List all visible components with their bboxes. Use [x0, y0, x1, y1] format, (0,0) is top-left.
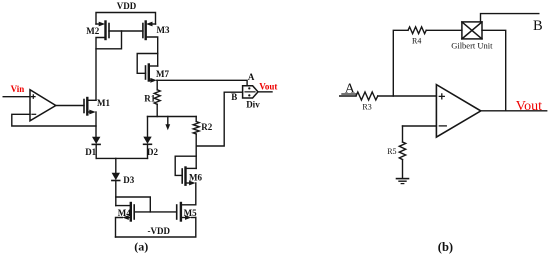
wire Vout output: [481, 110, 547, 112]
wire M6 gate-drain tie: [175, 156, 196, 175]
label VDD: [117, 1, 137, 11]
label D3: [123, 175, 134, 185]
diode D3: [112, 173, 120, 206]
label M5: [184, 208, 197, 218]
node A (a): [248, 72, 255, 82]
svg-text:M6: M6: [189, 172, 202, 182]
label Gilbert Unit: [451, 40, 493, 50]
svg-text:A: A: [345, 81, 356, 96]
node A (b): [345, 81, 356, 96]
svg-text:(a): (a): [134, 240, 148, 254]
svg-text:M2: M2: [86, 26, 99, 36]
wire inverting input lead: [403, 125, 437, 127]
svg-text:M1: M1: [97, 98, 110, 108]
wire node B to divider: [196, 92, 242, 146]
wire bus to diode D3: [115, 158, 117, 172]
op-amp U1: [30, 90, 56, 121]
svg-text:VDD: VDD: [117, 1, 137, 11]
wire R3 to noninverting input: [378, 95, 437, 97]
transistor M7: [146, 65, 158, 83]
transistor M6: [182, 168, 196, 186]
svg-text:B: B: [231, 92, 237, 102]
label R1: [144, 93, 155, 103]
wire node B branch: [481, 14, 539, 22]
label Vout (b): [516, 99, 542, 114]
label Div: [246, 100, 260, 110]
transistor M3: [143, 22, 158, 67]
diode D2: [143, 137, 151, 159]
svg-text:M4: M4: [118, 208, 131, 218]
svg-text:B: B: [533, 18, 543, 34]
wire A input lead: [340, 95, 356, 97]
label Vout (a): [259, 81, 277, 91]
transistor M5: [177, 183, 196, 221]
resistor R1: [154, 80, 160, 116]
current direction arrow: [165, 117, 170, 131]
wire feedback left branch: [393, 30, 408, 96]
svg-text:-VDD: -VDD: [148, 226, 171, 236]
svg-text:R5: R5: [387, 147, 396, 156]
label R3: [362, 102, 371, 111]
VDD rail: [96, 13, 156, 25]
label M7: [156, 69, 169, 79]
ground: [397, 179, 409, 184]
label M1: [97, 98, 110, 108]
wire feedback to inverting input: [12, 114, 96, 126]
caption (b): [438, 240, 453, 254]
label M3: [157, 25, 170, 35]
label -VDD: [148, 226, 171, 236]
label M4: [118, 208, 131, 218]
wire M4 gate to M5 gate: [134, 211, 177, 213]
transistor M1: [84, 98, 96, 137]
wire op-amp output to M1 gate: [56, 105, 84, 107]
wire M2 gate-drain tie: [96, 31, 122, 49]
-VDD rail: [116, 218, 196, 238]
svg-text:D2: D2: [147, 147, 158, 157]
label R2: [201, 122, 212, 132]
svg-text:A: A: [248, 72, 255, 82]
svg-text:R4: R4: [412, 36, 421, 45]
wire M4 gate-drain tie: [116, 197, 151, 212]
svg-text:M5: M5: [184, 208, 197, 218]
svg-text:Div: Div: [246, 100, 260, 110]
resistor R4: [408, 27, 426, 34]
label D1: [85, 147, 96, 157]
svg-text:Vout: Vout: [516, 99, 542, 114]
svg-text:Vout: Vout: [259, 81, 277, 91]
resistor R2: [193, 117, 199, 169]
label Vin: [11, 84, 25, 94]
label D2: [147, 147, 158, 157]
svg-text:R1: R1: [144, 93, 155, 103]
svg-text:D1: D1: [85, 147, 96, 157]
wire M7 gate-drain tie: [137, 54, 158, 74]
wire A input underline: [342, 93, 356, 95]
wire Gilbert unit to output node: [482, 30, 506, 111]
op-amp U2: [436, 85, 480, 138]
wire Vin input: [3, 96, 30, 98]
wire R4 to Gilbert unit: [426, 29, 462, 31]
diode D1: [92, 137, 100, 159]
wire M2 gate to M3 gate: [109, 30, 143, 32]
svg-text:R2: R2: [201, 122, 212, 132]
label M2: [86, 26, 99, 36]
label M6: [189, 172, 202, 182]
caption (a): [134, 240, 148, 254]
node B (a): [231, 92, 237, 102]
label R4: [412, 36, 421, 45]
svg-text:Gilbert Unit: Gilbert Unit: [451, 40, 493, 50]
mixer Gilbert Unit: [462, 22, 482, 39]
resistor R5: [399, 126, 405, 178]
transistor M2: [96, 22, 109, 101]
wire Vout output: [258, 91, 272, 93]
wire diode cathode bus: [96, 157, 147, 159]
resistor R3: [356, 92, 378, 100]
svg-text:M7: M7: [156, 69, 169, 79]
node B (b): [533, 18, 543, 34]
transistor M4: [116, 203, 135, 237]
svg-text:Vin: Vin: [11, 84, 25, 94]
label R5: [387, 147, 396, 156]
divider block Div: [243, 86, 258, 98]
svg-text:(b): (b): [438, 240, 453, 254]
svg-text:D3: D3: [123, 175, 134, 185]
wire bus to diode D2: [147, 117, 149, 137]
wire bus below R1: [148, 116, 197, 118]
svg-text:R3: R3: [362, 102, 371, 111]
wire node A from M7 source: [157, 80, 247, 85]
svg-text:M3: M3: [157, 25, 170, 35]
